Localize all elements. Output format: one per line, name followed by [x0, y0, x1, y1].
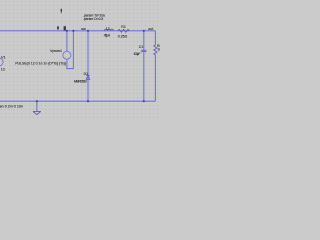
- wire: bottom rail (ground net): [0, 100, 155, 102]
- resistor R1: [118, 29, 129, 32]
- svg-text:Vpwm1: Vpwm1: [50, 49, 62, 53]
- background: [0, 0, 160, 120]
- svg-text:PULSE(0 12 0 1n 1n {D*Ts} {Ts}: PULSE(0 12 0 1n 1n {D*Ts} {Ts}): [15, 61, 66, 65]
- svg-text:sw: sw: [81, 27, 86, 31]
- wire: top rail: [0, 30, 155, 32]
- voltage source Vpwm1: [63, 31, 74, 69]
- net flag pole: [61, 12, 62, 14]
- voltage source V1 (clipped at left edge): [0, 58, 3, 66]
- svg-text:out: out: [148, 27, 153, 31]
- svg-text:1Ω: 1Ω: [157, 48, 160, 52]
- svg-text:C1: C1: [139, 45, 144, 49]
- inductor L1: [105, 29, 114, 31]
- svg-text:MBR0520: MBR0520: [74, 80, 87, 84]
- svg-text:R1: R1: [121, 25, 126, 29]
- svg-text:.param D=0.5: .param D=0.5: [83, 17, 103, 21]
- svg-text:100µF: 100µF: [134, 52, 141, 56]
- node d mark: [57, 26, 59, 29]
- svg-text:0.25Ω: 0.25Ω: [118, 35, 128, 39]
- grid dots: [0, 0, 160, 120]
- net flag mark: [61, 9, 62, 12]
- capacitor C1: [141, 31, 146, 101]
- svg-text:V1: V1: [1, 55, 6, 59]
- svg-text:12: 12: [1, 68, 5, 72]
- diode D1: [86, 31, 90, 101]
- svg-text:D1: D1: [84, 72, 89, 76]
- text labels (scaled to sub-pixel sizes): [0, 14, 162, 109]
- svg-text:.tran 0 2m 0 10n: .tran 0 2m 0 10n: [0, 104, 23, 108]
- junction dots: [36, 30, 145, 103]
- ground: [33, 101, 41, 115]
- resistor R2 (load): [154, 31, 157, 101]
- node g mark: [64, 26, 66, 30]
- svg-text:4.5µH: 4.5µH: [104, 33, 111, 37]
- svg-text:L1: L1: [106, 27, 110, 31]
